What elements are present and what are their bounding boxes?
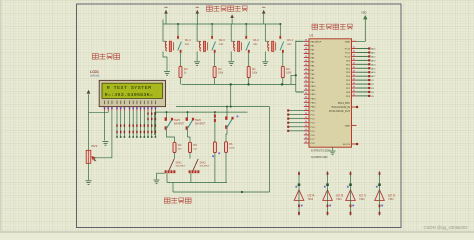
wire power arrow down to RV2 xyxy=(88,94,90,150)
LCD screen xyxy=(102,83,163,98)
wire rail to relay RL4 switch xyxy=(177,24,179,36)
svg-text:LM016L: LM016L xyxy=(90,74,100,78)
wire relay RL1 coil to ground xyxy=(264,51,266,61)
wire ground link xyxy=(157,172,165,174)
extra ticks on D5-D7 wires xyxy=(147,112,148,114)
wire resistor R0 to ground rail xyxy=(282,78,284,85)
svg-text:RL4: RL4 xyxy=(185,38,191,42)
svg-text:SW2: SW2 xyxy=(200,160,207,164)
wire resistor R1 to ground rail xyxy=(248,78,250,85)
svg-text:RL3: RL3 xyxy=(219,38,225,42)
+5V power arrow (LCD supply) xyxy=(87,90,91,94)
svg-text:R5: R5 xyxy=(193,143,197,147)
relay RL3 switch lever xyxy=(212,42,216,51)
potentiometer RV2 xyxy=(86,150,91,163)
svg-text:100k: 100k xyxy=(252,73,258,75)
svg-text:R TEST SYSTEM: R TEST SYSTEM xyxy=(107,85,152,91)
VDD power symbol xyxy=(357,19,366,41)
svg-text:RV2: RV2 xyxy=(92,144,98,148)
relay RL4 switch contacts xyxy=(177,36,179,39)
section title 自动控制电路 xyxy=(207,6,213,11)
svg-text:R4: R4 xyxy=(178,143,182,147)
MCU right pin OSC stub xyxy=(352,106,357,108)
relay RL2 switch lever xyxy=(246,42,250,51)
svg-text:PB12: PB12 xyxy=(311,94,317,96)
svg-text:U2 A: U2 A xyxy=(308,193,316,197)
wire rail B to SW6 xyxy=(187,112,189,117)
switch SW6 (SW-SPDT) xyxy=(186,117,188,120)
svg-text:U2 C: U2 C xyxy=(359,193,367,197)
relay RL3 coil xyxy=(199,42,201,52)
resistor R2 xyxy=(213,66,216,77)
resistor R4 xyxy=(173,142,176,152)
wire rail A right drop (to sense node) xyxy=(269,107,271,192)
wire relay RL4 coil to ground xyxy=(163,51,167,70)
svg-text:SW-SPDT: SW-SPDT xyxy=(174,124,185,126)
svg-text:R2: R2 xyxy=(218,67,222,71)
wire MCU left input 5 xyxy=(288,126,304,128)
ground (LCD VSS) xyxy=(103,142,109,146)
svg-text:SW-SPDT: SW-SPDT xyxy=(176,166,187,168)
wire switch to resistor R3 xyxy=(180,53,182,67)
LCD1 LM016L module body xyxy=(99,80,165,106)
ground (relay RL3) xyxy=(194,62,200,66)
12V power arrow 4 xyxy=(262,10,266,14)
section title 测试电路 xyxy=(164,198,170,203)
svg-text:SW5: SW5 xyxy=(174,118,181,122)
wire MCU right pin PD6 xyxy=(352,83,357,85)
svg-text:RL1: RL1 xyxy=(287,38,293,42)
relay RL2 coil xyxy=(233,42,235,52)
wire MCU right pin PD8 xyxy=(352,91,357,93)
12V power arrow 3 xyxy=(230,14,234,18)
svg-text:LCD1: LCD1 xyxy=(90,70,99,74)
wire MCU right pin PD0 xyxy=(352,59,357,61)
wire resistor R2 to ground rail xyxy=(214,78,216,85)
switch SW2 (SW-SPDT) xyxy=(189,170,191,173)
wire MCU left input 6 xyxy=(288,130,304,132)
ground (relay RL2) xyxy=(228,62,234,66)
wire RV2 wiper xyxy=(94,158,96,161)
svg-text:PC12: PC12 xyxy=(345,56,351,58)
LCD data/control wire bundle xyxy=(116,111,118,137)
section title 显示电路 xyxy=(92,54,98,59)
schematic border frame xyxy=(77,4,402,228)
relay RL4 switch lever xyxy=(178,42,182,51)
svg-text:1000k: 1000k xyxy=(229,147,236,149)
wire switch to resistor R0 xyxy=(282,53,284,67)
svg-text:7404: 7404 xyxy=(336,198,342,201)
wire R6 to bottom rail xyxy=(225,152,227,182)
svg-text:CLKSPD=12M: CLKSPD=12M xyxy=(311,156,327,159)
svg-text:E:\RTEST\CODE: E:\RTEST\CODE xyxy=(311,149,330,152)
wire RV2 bottom to ground xyxy=(88,163,90,180)
wire R7 to bottom rail xyxy=(214,153,216,183)
svg-text:PB11: PB11 xyxy=(311,90,317,92)
wire rail B to resistor R7 xyxy=(214,112,216,142)
wire MCU left input 1 xyxy=(288,109,304,111)
svg-text:PB10: PB10 xyxy=(311,86,317,88)
svg-text:7404: 7404 xyxy=(388,198,394,201)
MCU U1 left pins xyxy=(304,40,309,42)
op-amp buffer U2:C xyxy=(346,171,356,216)
wire MCU right pin PD3 xyxy=(352,71,357,73)
svg-text:U2 B: U2 B xyxy=(336,193,343,197)
wire rail A to SW7 xyxy=(226,107,228,117)
svg-text:7404: 7404 xyxy=(308,198,314,201)
svg-text:R=:493.549683K=: R=:493.549683K= xyxy=(105,92,154,98)
wire MCU right pin PC10 xyxy=(352,48,357,50)
svg-text:100K: 100K xyxy=(286,73,292,75)
test circuit sense rail xyxy=(173,191,270,193)
wire relay RL3 coil to ground xyxy=(196,51,198,61)
op-amp buffer U2:B xyxy=(323,171,333,216)
wire SW6 to resistor R5 xyxy=(188,130,191,142)
wire R4 to SW1 lever xyxy=(174,153,176,159)
wire SW7 to resistor R6 xyxy=(226,129,227,142)
ground (relay RL4) xyxy=(164,72,170,76)
svg-text:PC13_RTC: PC13_RTC xyxy=(338,102,350,105)
switch SW1 (SW-SPDT) xyxy=(165,170,167,173)
wire switch to resistor R1 xyxy=(248,53,250,67)
svg-text:VBAT: VBAT xyxy=(345,124,351,127)
op-amp buffer U2:D xyxy=(375,171,385,216)
svg-text:VDD: VDD xyxy=(361,11,366,14)
svg-text:R3: R3 xyxy=(184,67,188,71)
svg-text:7404: 7404 xyxy=(359,198,365,201)
svg-text:PB14: PB14 xyxy=(311,102,317,104)
wire MCU left input 3 xyxy=(288,118,304,120)
wire rail to relay RL2 switch xyxy=(245,24,247,36)
resistor R5 xyxy=(189,142,192,152)
svg-text:PB15: PB15 xyxy=(311,106,317,108)
wire rail to relay RL3 switch xyxy=(211,24,213,36)
wire MCU right pin PD2 xyxy=(352,67,357,69)
wire SW2 to bottom rail xyxy=(190,173,192,182)
relay RL2 switch contacts xyxy=(245,36,247,39)
svg-text:SW6: SW6 xyxy=(195,118,202,122)
svg-text:PA0-WKUP: PA0-WKUP xyxy=(311,40,322,43)
wire MCU bottom to ground xyxy=(332,147,334,150)
svg-text:SW-SPDT: SW-SPDT xyxy=(200,166,211,168)
svg-text:R1: R1 xyxy=(252,67,256,71)
wire VDD pin to +5V rail xyxy=(89,111,109,112)
svg-text:U2 D: U2 D xyxy=(388,193,396,197)
12V power rail (top) xyxy=(163,23,282,25)
op-amp buffer U2:A xyxy=(294,171,304,216)
resistor R0 xyxy=(281,66,284,77)
switch SW5 (SW-SPDT) xyxy=(165,117,167,120)
resistor R6 xyxy=(225,142,228,153)
svg-text:R6: R6 xyxy=(229,142,233,146)
relay RL3 switch contacts xyxy=(211,36,213,39)
svg-text:PC14-OSC32_IN: PC14-OSC32_IN xyxy=(332,106,351,109)
node wire into MCU pin 1 xyxy=(295,41,297,93)
wire VSS pin to ground xyxy=(104,111,106,141)
wire MCU right pin PC12 xyxy=(352,55,357,57)
MCU U1 right pin VBAT xyxy=(352,40,357,42)
wire MCU right pin PC11 xyxy=(352,51,357,53)
wire rail B to SW5 xyxy=(166,112,168,117)
test circuit rail A xyxy=(176,106,270,108)
wire SW1 to bottom rail xyxy=(166,173,168,182)
LCD pin stubs and pin numbers 1-14 xyxy=(104,107,106,111)
svg-text:CSDN @qq_43066303: CSDN @qq_43066303 xyxy=(424,225,469,230)
wire R5 down through SW2 xyxy=(189,153,191,159)
svg-text:PC10: PC10 xyxy=(345,49,351,51)
wire resistor R3 to ground rail xyxy=(180,78,182,85)
wire MCU left input 2 xyxy=(288,114,304,116)
wire rail to relay RL3 coil xyxy=(197,24,200,41)
wire MCU right pin PD4 xyxy=(352,75,357,77)
svg-text:SW-SPDT: SW-SPDT xyxy=(195,124,206,126)
wire ground rail to MCU port xyxy=(291,75,296,84)
wire rail to relay RL2 coil xyxy=(231,24,234,41)
svg-text:PC15-OSC32_OUT: PC15-OSC32_OUT xyxy=(329,110,351,113)
wire rail to relay RL1 coil xyxy=(265,24,268,41)
svg-text:RL2: RL2 xyxy=(253,38,259,42)
ground (relay RL1) xyxy=(262,62,268,66)
resistor R3 xyxy=(179,66,182,77)
svg-text:R0: R0 xyxy=(286,67,290,71)
wire MCU right pin PD9 xyxy=(352,95,357,97)
relay RL1 coil xyxy=(268,42,270,52)
12V power arrow 2 xyxy=(196,10,200,14)
relay RL4 coil xyxy=(165,42,167,52)
wire bottom rail to sense rail xyxy=(172,183,174,193)
LCD pin name column (VSS VDD VEE RS RW E D0-D7, rotated) xyxy=(103,101,106,105)
svg-text:PC11: PC11 xyxy=(345,52,351,54)
wire junction ticks on bundle xyxy=(116,124,117,126)
svg-text:100k: 100k xyxy=(218,73,224,75)
blue pin dots xyxy=(237,116,239,118)
wire rail to relay RL1 switch xyxy=(279,24,281,36)
wire VEE pin to RV2 wiper xyxy=(95,111,112,158)
svg-text:VBAT: VBAT xyxy=(345,40,351,43)
wire node to MCU pin row xyxy=(296,91,304,93)
test circuit bottom rail xyxy=(167,182,227,184)
ground (RV2) xyxy=(86,181,92,185)
wire ground rail down to test circuit xyxy=(230,84,232,106)
test circuit rail B xyxy=(155,111,248,113)
relay RL1 switch lever xyxy=(280,42,284,51)
wire rail B left drop xyxy=(154,112,156,135)
svg-text:BOOT0: BOOT0 xyxy=(343,144,351,146)
relay RL1 switch contacts xyxy=(279,36,281,39)
ground rail under relays xyxy=(182,83,296,85)
ground (test circuit) xyxy=(156,173,158,179)
wire MCU right pin PD7 xyxy=(352,87,357,89)
wire rail to relay RL4 coil xyxy=(163,24,166,41)
12V power arrow 1 xyxy=(164,10,168,14)
wire MCU right pin PD1 xyxy=(352,63,357,65)
svg-text:SW1: SW1 xyxy=(176,160,183,164)
svg-text:PB13: PB13 xyxy=(311,98,317,100)
resistor R7 xyxy=(213,142,216,153)
wire relay RL2 coil to ground xyxy=(230,51,232,61)
wire switch to resistor R2 xyxy=(214,53,216,67)
ground (MCU) xyxy=(330,151,336,155)
svg-text:U1: U1 xyxy=(310,34,314,38)
wire SW5 to resistor R4 xyxy=(167,130,175,142)
wire MCU left input 4 xyxy=(288,122,304,124)
MCU U1 body xyxy=(309,39,352,147)
section title 信号处理单元 xyxy=(312,24,318,29)
wire MCU right pin PD5 xyxy=(352,79,357,81)
resistor R1 xyxy=(247,66,250,77)
